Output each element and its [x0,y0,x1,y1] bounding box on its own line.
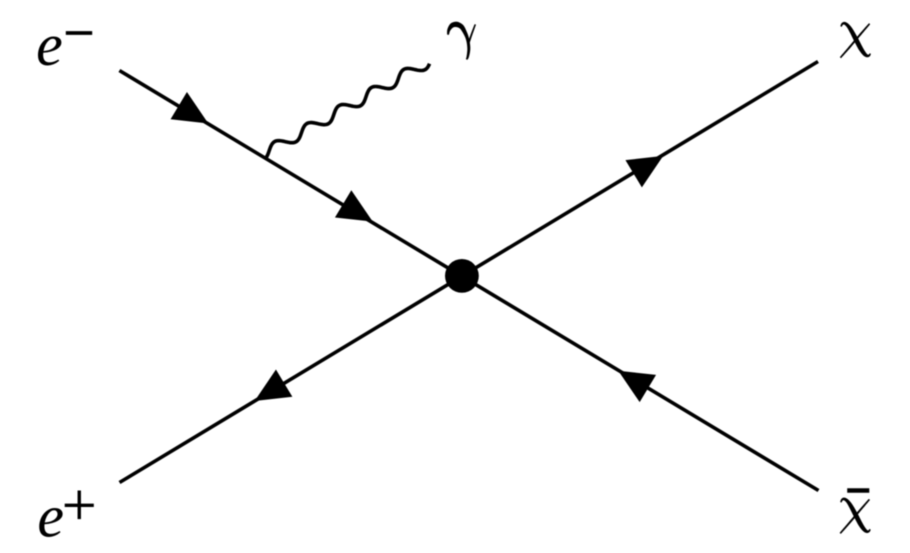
svg-text:e: e [37,484,64,550]
svg-text:e: e [36,12,63,78]
